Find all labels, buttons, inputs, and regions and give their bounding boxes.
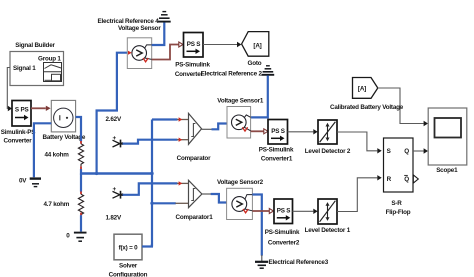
wire level detector 2 to flip-flop S input (337, 132, 382, 154)
svg-text:Battery Voltage: Battery Voltage (43, 134, 86, 141)
svg-text:[A]: [A] (253, 43, 261, 50)
svg-text:PS S: PS S (187, 41, 201, 48)
svg-text:Flip-Flop: Flip-Flop (386, 209, 411, 216)
svg-text:Simulink-PS: Simulink-PS (1, 129, 36, 136)
svg-text:Electrical Reference 2: Electrical Reference 2 (201, 70, 263, 77)
svg-text:S: S (387, 148, 391, 155)
wire from tag to scope input 1 (378, 88, 428, 126)
svg-text:Voltage Sensor2: Voltage Sensor2 (217, 179, 264, 186)
wire 1.82V source to comparator1 plus input (123, 181, 189, 195)
PS wire converter to battery source (31, 106, 51, 111)
node junction dot (95, 172, 98, 175)
PS-Simulink converter block PS S (top) (175, 33, 211, 79)
svg-text:Scope1: Scope1 (436, 167, 458, 174)
svg-text:S PS: S PS (15, 107, 29, 114)
svg-text:[A]: [A] (358, 86, 366, 93)
from tag [A] calibrated battery voltage (330, 78, 404, 112)
goto tag [A] (242, 32, 269, 67)
svg-text:Voltage Sensor1: Voltage Sensor1 (217, 98, 264, 105)
comparator1 triangle (176, 180, 214, 221)
svg-text:Q: Q (404, 148, 409, 155)
comparator (op-amp style triangle) (177, 113, 211, 161)
scope1 block (428, 108, 467, 174)
solver configuration block (109, 234, 148, 277)
DC source 2.62V (106, 116, 124, 148)
svg-text:PS-Simulink: PS-Simulink (265, 229, 300, 236)
svg-text:Electrical Reference3: Electrical Reference3 (269, 259, 329, 266)
junction node at divider tap (150, 172, 153, 175)
electrical reference 2 ground (inverted) (262, 66, 275, 75)
resistor R1 44 kohm (45, 141, 84, 175)
sense net vertical wire (151, 120, 153, 247)
PS-Simulink converter1 block PS S (259, 120, 294, 163)
svg-text:Level Detector 1: Level Detector 1 (305, 227, 351, 234)
wire comparator output to voltage sensor1 (202, 121, 233, 129)
svg-text:Comparator1: Comparator1 (176, 214, 214, 221)
svg-text:PS-Simulink: PS-Simulink (259, 147, 294, 154)
electrical reference3 ground (255, 255, 329, 268)
ground 0 bottom (66, 232, 86, 241)
svg-text:Converter: Converter (175, 71, 204, 78)
level detector 1 block (305, 199, 351, 234)
svg-text:Solver: Solver (119, 262, 138, 269)
svg-text:PS-Simulink: PS-Simulink (175, 62, 210, 69)
wire converter2 to level detector 1 (293, 209, 318, 214)
wire battery positive down to resistor R1 (76, 117, 81, 141)
svg-text:Converter1: Converter1 (261, 155, 293, 162)
PS wire sensor2 to converter2 (252, 209, 273, 214)
svg-text:Converter: Converter (4, 138, 33, 145)
PS wire sensor to PS-Simulink converter (152, 42, 183, 60)
svg-text:S-R: S-R (391, 200, 402, 207)
PS-Simulink converter2 block PS S (265, 199, 300, 246)
svg-text:4.7 kohm: 4.7 kohm (44, 201, 70, 208)
wire sense net to comparator1 minus input (152, 202, 189, 204)
ground 0V (19, 178, 41, 187)
svg-text:Configuration: Configuration (109, 271, 148, 277)
svg-text:PS S: PS S (271, 128, 285, 135)
main divider node wire (81, 172, 152, 174)
wire flip-flop Q to scope input 2 (413, 148, 428, 153)
wire 2.62V source to comparator minus input (123, 138, 189, 144)
wire solver configuration to sense net (142, 244, 152, 247)
wire sensor2 top terminal to electrical reference3 ground (252, 195, 261, 256)
svg-text:Group 1: Group 1 (38, 56, 61, 63)
voltage sensor2 block (217, 179, 264, 220)
svg-text:Level Detector 2: Level Detector 2 (305, 148, 351, 155)
svg-text:Signal Builder: Signal Builder (15, 42, 55, 49)
wire level detector 1 to flip-flop R input (337, 175, 382, 211)
svg-text:Comparator: Comparator (177, 155, 211, 162)
svg-text:Electrical Reference 4: Electrical Reference 4 (98, 18, 160, 25)
junction node comparator1 branch (150, 202, 153, 205)
wire converter to Goto tag (203, 42, 241, 47)
DC source 1.82V (106, 186, 124, 221)
svg-text:PS S: PS S (277, 208, 291, 215)
signal builder block (10, 42, 64, 86)
wire signal builder output to converter (7, 68, 12, 112)
voltage sensor1 block (217, 98, 264, 139)
wire converter1 to level detector 2 (288, 129, 318, 134)
wire reference4 ground to sensor top terminal (152, 23, 165, 46)
wire sense net to comparator plus input (152, 117, 189, 121)
battery voltage controlled source block (43, 100, 86, 141)
svg-text:Converter2: Converter2 (268, 239, 300, 246)
svg-text:1.82V: 1.82V (106, 214, 122, 221)
level detector 2 block (305, 120, 351, 155)
svg-text:44 kohm: 44 kohm (45, 152, 70, 159)
svg-text:Q: Q (404, 176, 409, 183)
wire reference2 ground down to voltage sensor1 (251, 76, 268, 118)
wire comparator1 output to voltage sensor2 (202, 194, 233, 205)
svg-text:0V: 0V (19, 178, 27, 185)
electrical reference 4 ground (inverted) (98, 12, 171, 25)
svg-text:Signal 1: Signal 1 (13, 65, 36, 72)
svg-text:R: R (387, 176, 392, 183)
wire divider tap up to voltage sensor (97, 53, 128, 174)
resistor R2 4.7 kohm (44, 174, 84, 232)
S-R flip-flop block (384, 138, 419, 216)
svg-text:Goto: Goto (248, 60, 262, 67)
simulink-PS converter S PS block (1, 101, 36, 145)
svg-text:f(x) = 0: f(x) = 0 (119, 244, 139, 251)
wire battery negative to 0V ground (34, 123, 51, 177)
svg-text:Voltage Sensor: Voltage Sensor (118, 25, 161, 32)
voltage sensor block (top) (118, 25, 161, 68)
svg-text:Calibrated Battery Voltage: Calibrated Battery Voltage (330, 104, 404, 111)
PS wire sensor1 to converter1 (251, 129, 268, 134)
svg-text:2.62V: 2.62V (106, 116, 122, 123)
